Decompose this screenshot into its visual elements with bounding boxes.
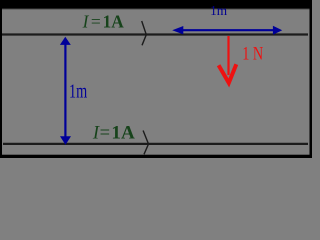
svg-text:I=1A: I=1A	[92, 124, 136, 144]
svg-text:I=1A: I=1A	[82, 12, 125, 32]
svg-text:1m: 1m	[210, 4, 227, 19]
svg-text:1m: 1m	[69, 81, 87, 103]
svg-text:1 N: 1 N	[242, 43, 263, 64]
